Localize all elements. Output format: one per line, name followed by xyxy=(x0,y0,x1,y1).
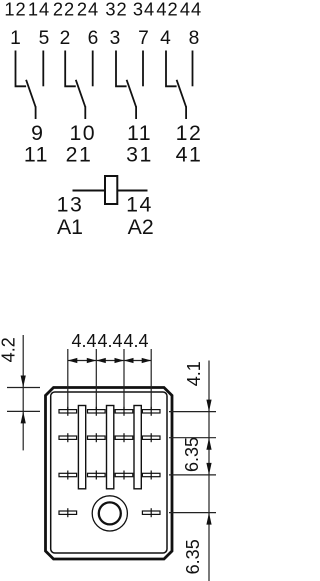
pole 3 moving contact arm xyxy=(127,80,137,107)
svg-text:4.2: 4.2 xyxy=(0,337,19,362)
blade pin row1 col3 xyxy=(115,407,133,416)
blade pin row2 col1 xyxy=(59,433,77,442)
arrowhead at col1 pointing left xyxy=(68,358,78,363)
svg-text:22: 22 xyxy=(53,0,75,20)
svg-text:34: 34 xyxy=(133,0,155,20)
extension line body top (left) xyxy=(7,387,40,389)
svg-text:7: 7 xyxy=(138,28,149,49)
arrow up to pin row 1 xyxy=(21,411,26,423)
svg-text:6.35: 6.35 xyxy=(183,539,203,574)
svg-text:13: 13 xyxy=(57,193,84,217)
svg-text:12: 12 xyxy=(176,121,203,145)
svg-text:10: 10 xyxy=(69,121,96,145)
pole 2 NC contact wire (pins 2/22) xyxy=(65,51,76,87)
relay body outer outline (bottom view) xyxy=(46,388,173,560)
blade pin row1 col1 xyxy=(59,407,77,416)
blade pin row3 col3 xyxy=(115,471,133,480)
pole 3 NO contact wire (pins 7/34) xyxy=(142,51,144,87)
arrow up to row 2 xyxy=(206,438,211,450)
pole 4 NC contact wire (pins 4/42) xyxy=(166,51,177,87)
blade pin row3 col1 xyxy=(59,471,77,480)
extension line col 3 xyxy=(123,349,125,412)
blade pin row3 col4 xyxy=(142,471,160,480)
coil right lead wire (A2) xyxy=(117,190,147,192)
pole 2 NO contact wire (pins 6/24) xyxy=(92,51,94,87)
pole 3 NC contact wire (pins 3/32) xyxy=(116,51,127,87)
blade pin row2 col4 xyxy=(142,433,160,442)
arrowhead at col4 pointing right xyxy=(142,358,152,363)
svg-text:42: 42 xyxy=(156,0,178,20)
pole 1 NO contact wire (pins 5/14) xyxy=(42,51,44,87)
top dimension line xyxy=(68,360,151,362)
svg-text:11: 11 xyxy=(127,121,152,145)
svg-text:4.4: 4.4 xyxy=(123,331,148,351)
extension line row 4 (right) xyxy=(169,512,216,514)
svg-text:14: 14 xyxy=(126,193,153,217)
svg-text:4.4: 4.4 xyxy=(71,331,96,351)
long blade bar 2 xyxy=(107,406,114,489)
svg-text:6.35: 6.35 xyxy=(182,437,202,472)
arrow down to row 1 xyxy=(206,400,211,412)
pole 3 common lead wire (pins 11/31) xyxy=(135,106,137,119)
extension line row 2 (right) xyxy=(169,437,216,439)
svg-text:32: 32 xyxy=(105,0,127,20)
svg-text:41: 41 xyxy=(176,143,203,167)
svg-text:44: 44 xyxy=(180,0,202,20)
svg-text:4.1: 4.1 xyxy=(184,361,204,386)
coil left lead wire (A1) xyxy=(73,190,106,192)
arrow down to row 3 xyxy=(206,463,211,475)
svg-text:4: 4 xyxy=(160,28,171,49)
arrow up to row 4 xyxy=(206,513,211,525)
center boss outer circle xyxy=(92,496,127,531)
pole 1 common lead wire (pins 9/11) xyxy=(35,106,37,119)
blade pin row4 col1 xyxy=(59,508,77,517)
pole 2 moving contact arm xyxy=(76,80,86,107)
svg-text:24: 24 xyxy=(77,0,99,20)
left dimension line xyxy=(22,335,24,450)
blade pin row3 col2 xyxy=(88,471,106,480)
relay body inner outline xyxy=(51,392,167,553)
svg-text:31: 31 xyxy=(126,143,153,167)
svg-text:A1: A1 xyxy=(57,215,83,239)
svg-text:A2: A2 xyxy=(128,215,154,239)
arrowheads at col3 xyxy=(115,358,134,363)
blade pin row1 col4 xyxy=(142,407,160,416)
svg-text:2: 2 xyxy=(60,28,71,49)
svg-text:5: 5 xyxy=(39,28,50,49)
pole 1 NC contact wire (pins 1/12) xyxy=(16,51,27,87)
svg-text:9: 9 xyxy=(31,121,43,145)
extension line row 1 (right) xyxy=(169,411,216,413)
extension line col 1 xyxy=(67,349,69,412)
extension line row 3 (right) xyxy=(169,474,216,476)
svg-text:12: 12 xyxy=(4,0,26,20)
svg-text:6: 6 xyxy=(88,28,99,49)
pole 2 common lead wire (pins 10/21) xyxy=(84,106,86,119)
pole 4 moving contact arm xyxy=(177,80,187,107)
center boss inner circle xyxy=(99,502,121,524)
pole 1 moving contact arm xyxy=(26,80,35,107)
arrowheads at col2 xyxy=(87,358,106,363)
blade pin row1 col2 xyxy=(88,407,106,416)
svg-text:21: 21 xyxy=(66,143,93,167)
svg-text:4.4: 4.4 xyxy=(97,331,122,351)
pole 4 common lead wire (pins 12/41) xyxy=(185,106,187,119)
long blade bar 1 xyxy=(78,406,85,489)
svg-text:1: 1 xyxy=(10,28,21,49)
svg-text:8: 8 xyxy=(189,28,200,49)
svg-text:14: 14 xyxy=(28,0,50,20)
blade pin row2 col2 xyxy=(88,433,106,442)
blade pin row4 col4 xyxy=(142,508,160,517)
blade pin row2 col3 xyxy=(115,433,133,442)
extension line col 2 xyxy=(95,349,97,412)
extension line pin row 1 (left) xyxy=(7,410,40,412)
extension line col 4 xyxy=(150,349,152,412)
coil K1 xyxy=(105,176,117,204)
svg-text:3: 3 xyxy=(110,28,121,49)
long blade bar 3 xyxy=(134,406,141,489)
pole 4 NO contact wire (pins 8/44) xyxy=(192,51,194,87)
arrow down to body top xyxy=(21,376,26,388)
right dimension line xyxy=(208,361,210,581)
svg-text:11: 11 xyxy=(24,143,49,167)
